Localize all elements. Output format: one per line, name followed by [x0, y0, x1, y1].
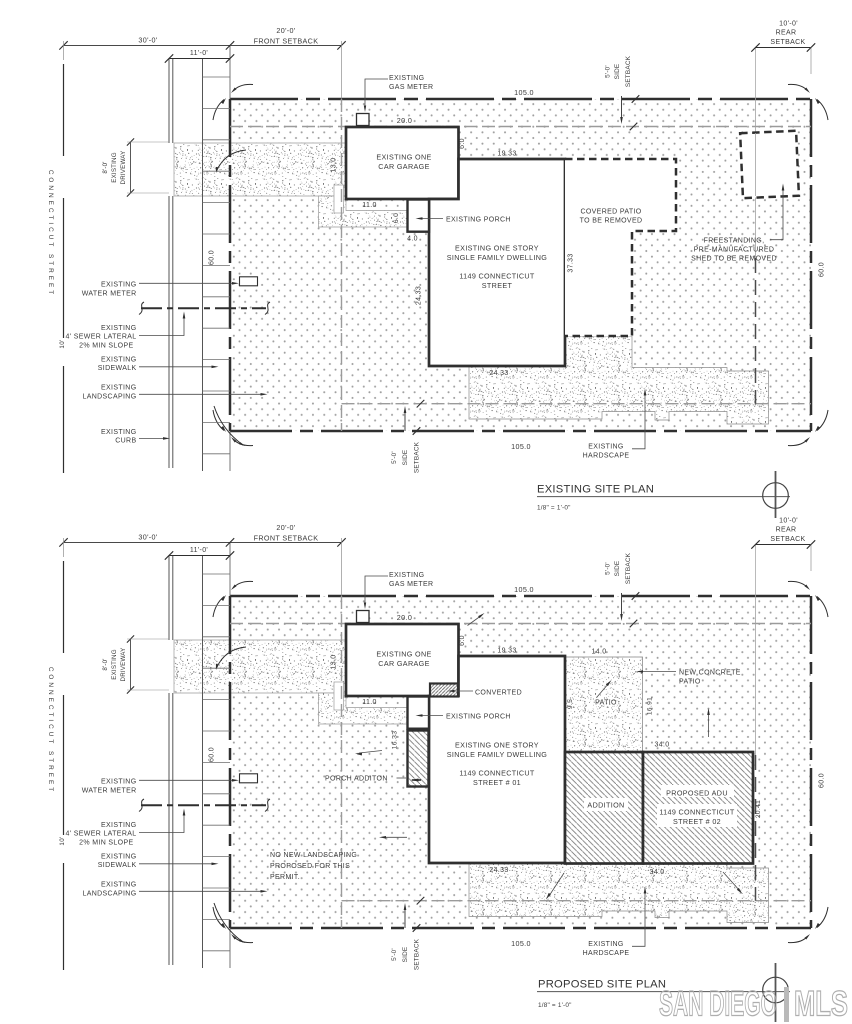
svg-text:13.0: 13.0 — [331, 157, 338, 172]
svg-text:PATIO: PATIO — [595, 700, 617, 707]
sidewalk edge (proposed) — [202, 556, 204, 968]
svg-text:19.33: 19.33 — [497, 648, 516, 655]
svg-text:WATER METER: WATER METER — [82, 788, 137, 795]
svg-text:EXISTING SITE PLAN: EXISTING SITE PLAN — [537, 484, 654, 496]
rear setback extension line (proposed) — [755, 545, 757, 597]
property line east (proposed) — [810, 596, 813, 928]
svg-text:10'-0': 10'-0' — [779, 518, 798, 525]
svg-text:PROPOSED SITE PLAN: PROPOSED SITE PLAN — [538, 979, 666, 991]
svg-text:SETBACK: SETBACK — [770, 536, 805, 543]
svg-text:TO BE REMOVED: TO BE REMOVED — [580, 218, 643, 225]
svg-text:SINGLE FAMILY DWELLING: SINGLE FAMILY DWELLING — [447, 750, 548, 759]
setback extension through shed (existing) — [755, 133, 757, 196]
svg-text:4.0: 4.0 — [407, 236, 418, 243]
converted closet (proposed) — [430, 684, 458, 697]
svg-text:EXISTING ONE STORY: EXISTING ONE STORY — [455, 244, 539, 253]
front setback line (proposed) — [341, 596, 343, 928]
svg-text:PERMIT.: PERMIT. — [270, 874, 300, 881]
svg-text:EXISTING: EXISTING — [111, 649, 118, 679]
svg-text:34.0: 34.0 — [654, 742, 669, 749]
existing water meter symbol (proposed) — [240, 774, 258, 783]
sidewalk curb arrow south (existing) — [214, 406, 243, 445]
one car garage (existing) — [346, 127, 459, 199]
svg-text:SINGLE FAMILY DWELLING: SINGLE FAMILY DWELLING — [447, 253, 548, 262]
svg-text:20'-0': 20'-0' — [276, 523, 296, 532]
hardscape flow arrow SW (proposed) — [549, 873, 564, 896]
svg-text:REAR: REAR — [776, 527, 797, 534]
svg-text:4' SEWER LATERAL: 4' SEWER LATERAL — [66, 334, 137, 341]
svg-text:37.33: 37.33 — [568, 253, 575, 272]
dwelling outline (existing) — [429, 159, 565, 366]
north arrow existing — [775, 471, 777, 518]
curb lines (proposed) — [168, 556, 170, 640]
existing gas meter symbol (existing) — [357, 114, 370, 126]
svg-text:2% MIN SLOPE: 2% MIN SLOPE — [79, 839, 133, 846]
ADU labels (proposed) — [661, 785, 734, 797]
dimension line 30ft (existing) — [64, 44, 342, 46]
sewer lateral line (proposed) — [141, 804, 266, 806]
svg-text:16.33: 16.33 — [392, 731, 399, 750]
dwelling outline (proposed) — [429, 656, 565, 863]
street centerline (proposed) — [63, 561, 65, 653]
svg-text:SIDEWALK: SIDEWALK — [98, 862, 137, 869]
svg-text:EXISTING: EXISTING — [101, 429, 136, 436]
svg-text:SIDE: SIDE — [614, 561, 621, 577]
one car garage (proposed) — [346, 624, 459, 696]
curb lines (existing) — [168, 59, 170, 143]
property line west (existing) — [229, 99, 232, 431]
svg-text:EXISTING PORCH: EXISTING PORCH — [446, 714, 511, 721]
svg-text:105.0: 105.0 — [514, 585, 534, 594]
svg-text:STREET # 02: STREET # 02 — [673, 817, 721, 826]
addition (proposed) — [565, 752, 643, 864]
svg-text:105.0: 105.0 — [511, 939, 531, 948]
dimension line 11ft (proposed) — [169, 555, 230, 557]
svg-text:11.0: 11.0 — [362, 699, 377, 706]
svg-text:SIDE: SIDE — [614, 64, 621, 80]
corner mark SE (proposed) — [788, 936, 808, 943]
side setback line south (proposed) — [342, 900, 812, 902]
addition label (proposed) — [584, 798, 628, 811]
svg-text:4' SEWER LATERAL: 4' SEWER LATERAL — [66, 831, 137, 838]
svg-text:1149 CONNECTICUT: 1149 CONNECTICUT — [459, 769, 535, 778]
property line south (existing) — [230, 430, 811, 433]
svg-text:6.0: 6.0 — [459, 635, 466, 646]
svg-text:HARDSCAPE: HARDSCAPE — [583, 950, 630, 957]
svg-text:EXISTING: EXISTING — [101, 282, 136, 289]
svg-text:EXISTING: EXISTING — [101, 385, 136, 392]
svg-text:COVERED PATIO: COVERED PATIO — [580, 209, 641, 216]
svg-text:FREESTANDING,: FREESTANDING, — [704, 238, 765, 245]
svg-text:19.33: 19.33 — [497, 151, 516, 158]
svg-text:SAN DIEGO: SAN DIEGO — [659, 984, 777, 1024]
svg-text:2% MIN SLOPE: 2% MIN SLOPE — [79, 342, 133, 349]
side setback line north (existing) — [230, 126, 811, 128]
street centerline (existing) — [63, 64, 65, 156]
svg-text:EXISTING: EXISTING — [101, 357, 136, 364]
sidewalk joints (existing) — [203, 77, 231, 454]
driveway curb arrow (proposed) — [217, 647, 247, 668]
svg-text:16.91: 16.91 — [647, 697, 654, 715]
svg-text:34.0: 34.0 — [649, 869, 664, 876]
svg-text:30'-0': 30'-0' — [138, 533, 158, 542]
svg-text:10': 10' — [59, 339, 66, 348]
svg-text:EXISTING: EXISTING — [588, 941, 623, 948]
svg-text:6.0: 6.0 — [459, 138, 466, 149]
svg-text:SIDE: SIDE — [402, 947, 409, 963]
svg-text:5'-0': 5'-0' — [605, 65, 612, 78]
svg-text:11'-0': 11'-0' — [190, 50, 208, 57]
property line east (existing) — [810, 99, 813, 431]
svg-text:11'-0': 11'-0' — [190, 547, 208, 554]
sidewalk curb arrow south (proposed) — [214, 903, 243, 942]
svg-text:SETBACK: SETBACK — [625, 552, 632, 584]
svg-text:105.0: 105.0 — [514, 88, 534, 97]
svg-text:8'-0': 8'-0' — [102, 161, 109, 173]
svg-text:11.0: 11.0 — [362, 202, 377, 209]
svg-text:EXISTING: EXISTING — [389, 75, 424, 82]
porch (proposed) — [408, 697, 430, 729]
property line west (proposed) — [229, 596, 232, 928]
svg-text:NEW CONCRETE: NEW CONCRETE — [679, 670, 741, 677]
svg-text:1/8" = 1'-0": 1/8" = 1'-0" — [538, 1002, 572, 1009]
svg-text:60.0: 60.0 — [209, 250, 216, 265]
step beside garage (existing) — [334, 185, 344, 213]
front setback line (existing) — [341, 99, 343, 431]
rear setback extension line (existing) — [755, 48, 757, 100]
dimension line 11ft (existing) — [169, 58, 230, 60]
svg-text:GAS METER: GAS METER — [389, 84, 433, 91]
svg-text:5'-0': 5'-0' — [391, 451, 398, 464]
svg-text:60.0: 60.0 — [209, 747, 216, 762]
svg-text:10'-0': 10'-0' — [779, 21, 798, 28]
lot landscaping stipple (proposed) — [230, 596, 811, 928]
corner mark SW (existing) — [233, 439, 253, 446]
svg-text:EXISTING: EXISTING — [101, 854, 136, 861]
svg-text:CONNECTICUT STREET: CONNECTICUT STREET — [47, 667, 54, 794]
svg-text:EXISTING: EXISTING — [101, 779, 136, 786]
svg-text:FRONT SETBACK: FRONT SETBACK — [254, 534, 319, 543]
svg-text:STREET: STREET — [482, 281, 513, 290]
svg-text:EXISTING PORCH: EXISTING PORCH — [446, 217, 511, 224]
shed outline (existing) — [740, 131, 799, 198]
north arrow proposed — [775, 963, 777, 1022]
corner mark SW (proposed) — [233, 936, 253, 943]
svg-text:5'-0': 5'-0' — [605, 562, 612, 575]
svg-text:CONVERTED: CONVERTED — [475, 690, 522, 697]
svg-text:EXISTING: EXISTING — [111, 152, 118, 182]
svg-text:CAR GARAGE: CAR GARAGE — [378, 162, 429, 171]
corner mark NW (existing) — [233, 84, 253, 91]
svg-text:SETBACK: SETBACK — [770, 39, 805, 46]
rear hardscape area (existing) — [469, 336, 769, 424]
svg-text:105.0: 105.0 — [511, 442, 531, 451]
svg-text:24.33: 24.33 — [489, 867, 508, 874]
step beside garage (proposed) — [334, 682, 344, 710]
svg-text:CONNECTICUT STREET: CONNECTICUT STREET — [47, 170, 54, 297]
rear hardscape area (proposed) — [469, 864, 769, 923]
svg-text:24.33: 24.33 — [489, 370, 508, 377]
svg-text:9.5: 9.5 — [567, 699, 574, 709]
svg-text:PRE-MANUFACTURED: PRE-MANUFACTURED — [694, 247, 775, 254]
walkway to porch (proposed) — [319, 693, 408, 724]
new concrete patio (proposed) — [566, 657, 643, 752]
sidewalk property edge extensions (existing) — [229, 46, 231, 99]
svg-text:20.41: 20.41 — [755, 800, 762, 818]
svg-text:REAR: REAR — [776, 30, 797, 37]
svg-text:5'-0': 5'-0' — [391, 948, 398, 961]
svg-text:CURB: CURB — [115, 438, 136, 445]
side setback line south (existing) — [342, 403, 812, 405]
svg-text:60.0: 60.0 — [819, 773, 826, 788]
svg-text:HARDSCAPE: HARDSCAPE — [583, 453, 630, 460]
corner mark SE (existing) — [788, 439, 808, 446]
svg-text:LANDSCAPING: LANDSCAPING — [82, 393, 136, 400]
svg-text:20.0: 20.0 — [397, 613, 412, 622]
svg-text:SETBACK: SETBACK — [625, 55, 632, 87]
corner mark NW (proposed) — [233, 581, 253, 588]
svg-text:20'-0': 20'-0' — [276, 26, 296, 35]
existing water meter symbol (existing) — [240, 277, 258, 286]
svg-text:EXISTING ONE: EXISTING ONE — [376, 650, 431, 659]
svg-text:8'-0': 8'-0' — [102, 658, 109, 670]
flow arrow patio (proposed) — [468, 615, 483, 626]
svg-text:10': 10' — [59, 836, 66, 845]
svg-text:20.0: 20.0 — [397, 116, 412, 125]
svg-text:EXISTING: EXISTING — [389, 572, 424, 579]
lot landscaping stipple (existing) — [230, 99, 811, 431]
svg-text:LANDSCAPING: LANDSCAPING — [82, 890, 136, 897]
svg-text:PROPOSED FOR THIS: PROPOSED FOR THIS — [270, 863, 350, 870]
svg-text:EXISTING: EXISTING — [101, 822, 136, 829]
svg-text:MLS: MLS — [794, 984, 848, 1024]
svg-text:NO NEW LANDSCAPING: NO NEW LANDSCAPING — [270, 852, 357, 859]
svg-text:1/8" = 1'-0": 1/8" = 1'-0" — [537, 505, 571, 512]
covered patio outline (existing) — [565, 159, 676, 336]
sewer lateral line (existing) — [141, 307, 266, 309]
svg-text:14.0: 14.0 — [591, 649, 606, 656]
svg-text:CAR GARAGE: CAR GARAGE — [378, 659, 429, 668]
svg-text:SETBACK: SETBACK — [414, 441, 421, 473]
porch addition (proposed) — [408, 731, 429, 787]
hardscape flow arrow SE (proposed) — [723, 872, 740, 891]
side setback line north (proposed) — [230, 623, 811, 625]
svg-text:DRIVEWAY: DRIVEWAY — [120, 648, 127, 682]
svg-text:ADDITION: ADDITION — [587, 801, 624, 810]
flow arrow west lower (proposed) — [383, 836, 407, 838]
porch (existing) — [408, 200, 430, 232]
svg-text:EXISTING ONE: EXISTING ONE — [376, 153, 431, 162]
svg-text:GAS METER: GAS METER — [389, 581, 433, 588]
svg-text:1149 CONNECTICUT: 1149 CONNECTICUT — [459, 272, 535, 281]
svg-text:EXISTING: EXISTING — [101, 325, 136, 332]
driveway curb arrow (existing) — [217, 150, 247, 171]
svg-text:13.0: 13.0 — [331, 654, 338, 669]
sidewalk edge (existing) — [202, 59, 204, 471]
svg-text:STREET # 01: STREET # 01 — [473, 778, 521, 787]
property line south (proposed) — [230, 927, 811, 930]
svg-text:SIDEWALK: SIDEWALK — [98, 365, 137, 372]
property line north (existing) — [230, 98, 811, 101]
svg-text:1149 CONNECTICUT: 1149 CONNECTICUT — [659, 808, 735, 817]
svg-text:30'-0': 30'-0' — [138, 36, 158, 45]
svg-text:PORCH ADDITON: PORCH ADDITON — [325, 776, 388, 783]
svg-text:SHED TO BE REMOVED: SHED TO BE REMOVED — [691, 256, 777, 263]
svg-text:60.0: 60.0 — [819, 262, 826, 277]
svg-text:DRIVEWAY: DRIVEWAY — [120, 151, 127, 185]
svg-text:PROPOSED ADU: PROPOSED ADU — [666, 789, 728, 798]
svg-text:WATER METER: WATER METER — [82, 291, 137, 298]
sidewalk joints (proposed) — [203, 574, 231, 951]
svg-text:EXISTING ONE STORY: EXISTING ONE STORY — [455, 741, 539, 750]
svg-text:FRONT SETBACK: FRONT SETBACK — [254, 37, 319, 46]
flow arrow rear (proposed) — [708, 712, 710, 737]
driveway hardscape (existing) — [174, 143, 346, 196]
property line north (proposed) — [230, 595, 811, 598]
flow arrow west (proposed) — [359, 751, 382, 754]
walkway to porch (existing) — [319, 196, 408, 227]
corner mark NE (proposed) — [788, 581, 808, 588]
sidewalk property edge extensions (proposed) — [229, 543, 231, 596]
dimension line 30ft (proposed) — [64, 541, 342, 543]
driveway hardscape (proposed) — [174, 640, 346, 693]
existing gas meter symbol (proposed) — [357, 611, 370, 623]
svg-text:PATIO: PATIO — [679, 679, 701, 686]
proposed ADU (proposed) — [643, 752, 753, 864]
svg-text:24.33: 24.33 — [416, 286, 423, 305]
svg-text:EXISTING: EXISTING — [101, 882, 136, 889]
svg-text:SIDE: SIDE — [402, 450, 409, 466]
corner mark NE (existing) — [788, 84, 808, 91]
svg-text:EXISTING: EXISTING — [588, 444, 623, 451]
svg-text:SETBACK: SETBACK — [414, 938, 421, 970]
svg-text:6.0: 6.0 — [393, 213, 400, 224]
